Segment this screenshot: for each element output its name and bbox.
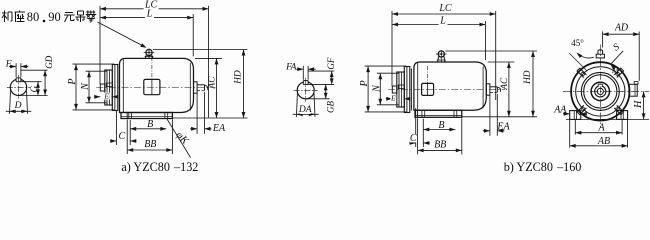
svg-text:A: A	[598, 123, 606, 134]
svg-text:BB: BB	[434, 140, 446, 151]
svg-text:M: M	[611, 65, 620, 75]
motor body (b)	[414, 62, 486, 110]
keyway width dim F (a)	[5, 60, 29, 77]
dim A	[575, 120, 622, 135]
LC/L left extension line (b)	[391, 11, 393, 86]
shaft diameter dim D (a)	[6, 90, 31, 114]
motor body (a)	[120, 58, 194, 112]
bearing spigot (a)	[105, 70, 113, 105]
dim AC (b)	[488, 62, 515, 117]
dim C (a)	[110, 111, 137, 146]
lifting eye (a)	[144, 49, 155, 59]
dim EA (b)	[483, 94, 511, 136]
shaft section circle (a)	[10, 78, 26, 96]
svg-text:BB: BB	[144, 139, 156, 150]
svg-text:P: P	[67, 78, 78, 85]
end view circle r19.0	[581, 72, 619, 110]
dim P (a)	[67, 64, 114, 110]
svg-text:80: 80	[27, 10, 40, 24]
svg-text:B: B	[147, 119, 153, 130]
svg-text:AC: AC	[208, 76, 218, 90]
svg-text:D: D	[14, 101, 22, 111]
svg-text:S: S	[611, 42, 621, 54]
L right extension line (a)	[192, 14, 194, 56]
section centerlines (b)	[294, 78, 318, 102]
dim BB (a)	[127, 120, 172, 155]
dim L (a)	[100, 8, 193, 19]
svg-text:GF: GF	[326, 57, 336, 69]
rear shaft stub (b)	[486, 84, 500, 95]
leader arrow from note to lifting eye	[98, 22, 147, 48]
svg-text:E: E	[390, 94, 396, 103]
dim AC (a)	[195, 58, 222, 118]
LC/L left extension line (a)	[99, 6, 101, 84]
end view circle r9.2	[591, 82, 609, 100]
dim LC (b)	[392, 3, 496, 16]
dim HD (b)	[445, 51, 537, 117]
terminal box (b)	[422, 66, 434, 95]
dim HD (a)	[153, 50, 248, 119]
dim N (a)	[80, 71, 107, 103]
keyway depth dims GD G (a)	[19, 55, 55, 95]
shaft section circle (b)	[297, 80, 314, 99]
LC right extension line (b)	[495, 11, 497, 100]
terminal box (end view)	[629, 82, 638, 97]
svg-text:LC: LC	[438, 3, 452, 14]
svg-text:GD: GD	[44, 55, 54, 68]
dim B (a)	[130, 119, 166, 131]
svg-text:L: L	[439, 15, 446, 26]
foot plate (a)	[121, 113, 172, 119]
dim E (b)	[386, 94, 411, 103]
hub keyway notch	[598, 84, 602, 86]
svg-text:90: 90	[48, 10, 61, 24]
svg-text:H: H	[633, 100, 644, 109]
svg-text:GB: GB	[325, 101, 335, 113]
label 45 degrees with arc leader	[571, 38, 594, 58]
svg-text:DA: DA	[298, 105, 312, 115]
svg-text:–160: –160	[556, 160, 581, 174]
keyway width dim FA (b)	[285, 62, 315, 79]
svg-text:L: L	[146, 8, 153, 19]
label S with leader	[611, 42, 624, 70]
svg-text:G: G	[29, 85, 39, 92]
end view circle r5.6	[595, 86, 606, 97]
shaft diameter dim DA (b)	[293, 93, 319, 117]
svg-text:C: C	[118, 131, 125, 142]
body ribs (b)	[418, 63, 483, 110]
foot bolt holes (a)	[129, 113, 168, 119]
lifting eye (b)	[436, 50, 447, 62]
foot bolt holes (b)	[422, 110, 457, 117]
svg-text:FA: FA	[285, 62, 297, 72]
dim AA	[553, 105, 587, 116]
dim P (b)	[359, 66, 406, 112]
keyway depth dims GF GB (b)	[306, 57, 337, 113]
caption b	[504, 160, 582, 174]
terminal box (a)	[144, 57, 160, 95]
dim N (b)	[372, 73, 399, 105]
foot plate (b)	[415, 110, 462, 117]
svg-text:–132: –132	[173, 160, 198, 174]
bearing spigot (b)	[397, 72, 405, 107]
dim E (a)	[94, 92, 119, 101]
L right extension line (b)	[485, 21, 487, 60]
dim LC (a)	[100, 0, 209, 11]
svg-text:φK: φK	[173, 130, 190, 148]
flange bolt holes	[581, 72, 619, 110]
svg-text:AC: AC	[500, 77, 510, 91]
svg-text:AB: AB	[597, 136, 610, 147]
motor a centerline	[96, 87, 215, 89]
svg-text:HD: HD	[234, 70, 244, 85]
svg-text:F: F	[5, 60, 12, 70]
end view circle r29.2	[571, 62, 629, 120]
caption a	[121, 160, 198, 174]
ground line (a)	[172, 117, 247, 119]
svg-text:E: E	[103, 92, 109, 101]
shaft (b)	[392, 86, 397, 93]
note text: frames 80,90 have no lifting eye	[2, 10, 96, 24]
shaft (a)	[100, 84, 105, 91]
end view circle r24.6	[576, 67, 625, 116]
end flange (b)	[404, 67, 411, 113]
svg-text:AD: AD	[614, 22, 629, 33]
svg-text:B: B	[438, 120, 444, 131]
svg-text:EA: EA	[496, 122, 510, 133]
end view circle r3.1	[597, 88, 603, 94]
bolt bosses at 45 degrees	[577, 68, 624, 115]
body ribs (a)	[123, 59, 190, 112]
dim AD	[603, 22, 640, 81]
svg-text:b) YZC80: b) YZC80	[504, 160, 553, 174]
svg-text:N: N	[80, 82, 91, 91]
svg-text:a) YZC80: a) YZC80	[121, 160, 170, 174]
svg-text:N: N	[372, 84, 383, 93]
end view circle r16.6	[584, 75, 617, 108]
45 degree reference line	[569, 53, 586, 70]
top fitting	[596, 50, 604, 58]
section centerlines (a)	[7, 75, 30, 98]
dim B (b)	[423, 120, 455, 132]
svg-text:HD: HD	[523, 70, 533, 85]
leader phi-K (foot hole diameter)	[167, 119, 191, 158]
end view feet	[570, 111, 628, 120]
label M	[611, 65, 620, 75]
dim H	[633, 91, 645, 119]
svg-text:C: C	[410, 133, 417, 144]
end view ground line	[566, 118, 649, 120]
LC right extension line (a)	[208, 6, 210, 118]
dim AB	[570, 120, 628, 148]
svg-text:45°: 45°	[571, 38, 584, 48]
end flange (a)	[112, 65, 119, 111]
dim C (b)	[409, 108, 430, 147]
dim EA (a)	[190, 92, 226, 134]
motor b centerline	[388, 89, 505, 91]
end view centerlines	[563, 45, 649, 129]
rear shaft stub (a)	[194, 82, 208, 93]
svg-text:EA: EA	[212, 123, 226, 134]
dim BB (b)	[418, 118, 462, 154]
svg-text:P: P	[359, 80, 370, 87]
dim L (b)	[392, 15, 486, 26]
ground line (b)	[462, 116, 537, 118]
